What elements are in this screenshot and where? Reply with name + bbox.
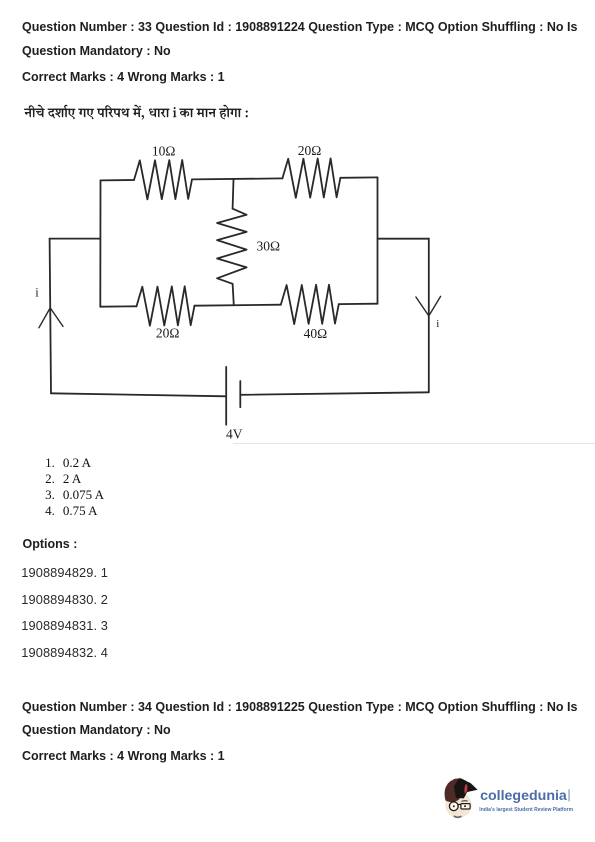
faint separator line (233, 443, 595, 444)
wire right branch connector (378, 238, 429, 240)
resistor R3 30Ω middle (217, 209, 247, 284)
current arrow right (down) (416, 296, 441, 316)
collegedunia logo (441, 775, 595, 825)
face (445, 792, 471, 818)
svg-text:i: i (436, 318, 439, 330)
resistor R1 10Ω top-left (134, 160, 192, 199)
eyes (453, 805, 455, 807)
glasses bridge (458, 803, 461, 805)
eyebrow (462, 800, 468, 803)
hair (445, 778, 467, 802)
wire bottom-right segment (339, 303, 378, 305)
svg-text:i: i (35, 286, 39, 300)
svg-text:India's largest Student Review: India's largest Student Review Platform (479, 807, 573, 813)
tagline (479, 807, 573, 813)
battery V1 plate long (+) (225, 367, 227, 425)
battery V1 plate short (-) (239, 381, 241, 407)
wire bottom tap of R3 (233, 284, 234, 305)
wire bottom-left segment (100, 305, 136, 307)
wire battery to bottom right (240, 392, 428, 395)
wire right outer vertical (428, 239, 430, 393)
mouth (454, 816, 461, 817)
resistor R2 20Ω top-right (282, 158, 340, 197)
wire top-right segment (340, 176, 377, 178)
glasses left lens (449, 802, 458, 811)
resistor R5 40Ω bottom-right (281, 285, 339, 324)
resistor R4 20Ω bottom-left (137, 286, 195, 325)
wire top-middle segment (192, 178, 282, 179)
wire top-left segment (101, 179, 135, 181)
wire bottom-middle segment (195, 305, 281, 306)
svg-text:30Ω: 30Ω (257, 238, 281, 253)
wire left branch connector (50, 238, 100, 240)
glasses right lens (461, 804, 470, 809)
wire left vertical of bridge (99, 180, 101, 306)
node top tap of R3 (232, 179, 235, 209)
svg-text:4V: 4V (226, 427, 243, 442)
graduation cap (454, 778, 478, 798)
svg-text:collegedunia: collegedunia (480, 788, 567, 804)
svg-text:40Ω: 40Ω (304, 326, 328, 341)
cropped trailing glyph (568, 789, 570, 801)
tassel (464, 784, 468, 794)
svg-text:20Ω: 20Ω (298, 143, 322, 158)
wire right vertical of bridge (377, 177, 379, 303)
svg-text:20Ω: 20Ω (156, 326, 180, 341)
wire left outer vertical (50, 239, 51, 394)
circuit schematic (0, 130, 595, 450)
wire bottom left to battery (51, 393, 226, 396)
svg-text:10Ω: 10Ω (152, 143, 176, 158)
current arrow left (up) (39, 308, 63, 328)
